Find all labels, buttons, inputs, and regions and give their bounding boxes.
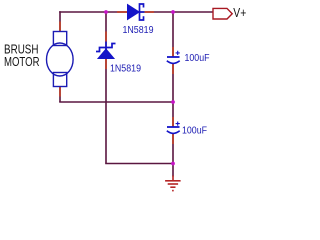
wire vertical x=106 top to bottom [105,12,107,164]
pin C1 minus [172,64,174,75]
wire rail x=173 below bottom cap to ground [172,134,174,177]
junction node top-left (106,12) [104,10,108,14]
diode D2 cathode lead [105,42,107,51]
pin C2 plus [172,117,174,127]
pin motor top [59,22,61,32]
label BRUSH MOTOR [4,42,40,70]
junction node bottom (173,163.5) [171,162,175,166]
pins (red stubs) [60,12,173,144]
junction node mid (173,102.5) [171,100,175,104]
wire motor bottom horizontal y=102.5 [59,101,173,103]
svg-text:MOTOR: MOTOR [4,54,40,69]
pin C2 minus [172,134,174,145]
ground symbol [165,176,181,191]
wire motor top drop [59,11,61,31]
diode D1 cathode lead [140,11,145,13]
svg-text:100uF: 100uF [185,53,210,64]
motor M1 bottom brush [53,73,66,87]
pin D2 anode [105,59,107,70]
svg-text:1N5819: 1N5819 [123,25,154,36]
diode D2 (vertical) triangle [98,49,114,59]
pin D2 cathode [105,32,107,42]
capacitor C1 curved plate [167,61,180,64]
capacitor C2 curved plate [167,131,180,134]
capacitor C1 plus sign [176,51,180,55]
diode D1 schottky cathode bar [140,4,144,20]
capacitor C1 top plate [167,56,180,58]
wire bottom horizontal y=163.5 [105,163,173,165]
svg-text:100uF: 100uF [182,126,207,137]
motor M1 top brush [53,32,66,46]
capacitor C2 top plate [167,126,180,128]
wire top rail y=12 [59,11,212,13]
power port V+ flag [213,8,232,19]
wire rail x=173 between caps [172,64,174,128]
diode D2 schottky cathode bar [96,44,116,52]
wire [59,11,212,176]
pin motor bottom [59,87,61,97]
pin D1 anode [117,11,127,13]
svg-text:1N5819: 1N5819 [110,64,141,75]
motor M1 body ellipse [47,43,74,76]
pin D1 cathode [145,11,154,13]
capacitor C2 plus sign [176,122,180,126]
diode D1 (top, series) triangle [128,5,140,20]
wire motor bottom drop [59,87,61,103]
pin C1 plus [172,47,174,57]
wire rail x=173 segment above top cap [172,12,174,57]
svg-text:V+: V+ [233,6,246,20]
junction node top-right (173,12) [171,10,175,14]
